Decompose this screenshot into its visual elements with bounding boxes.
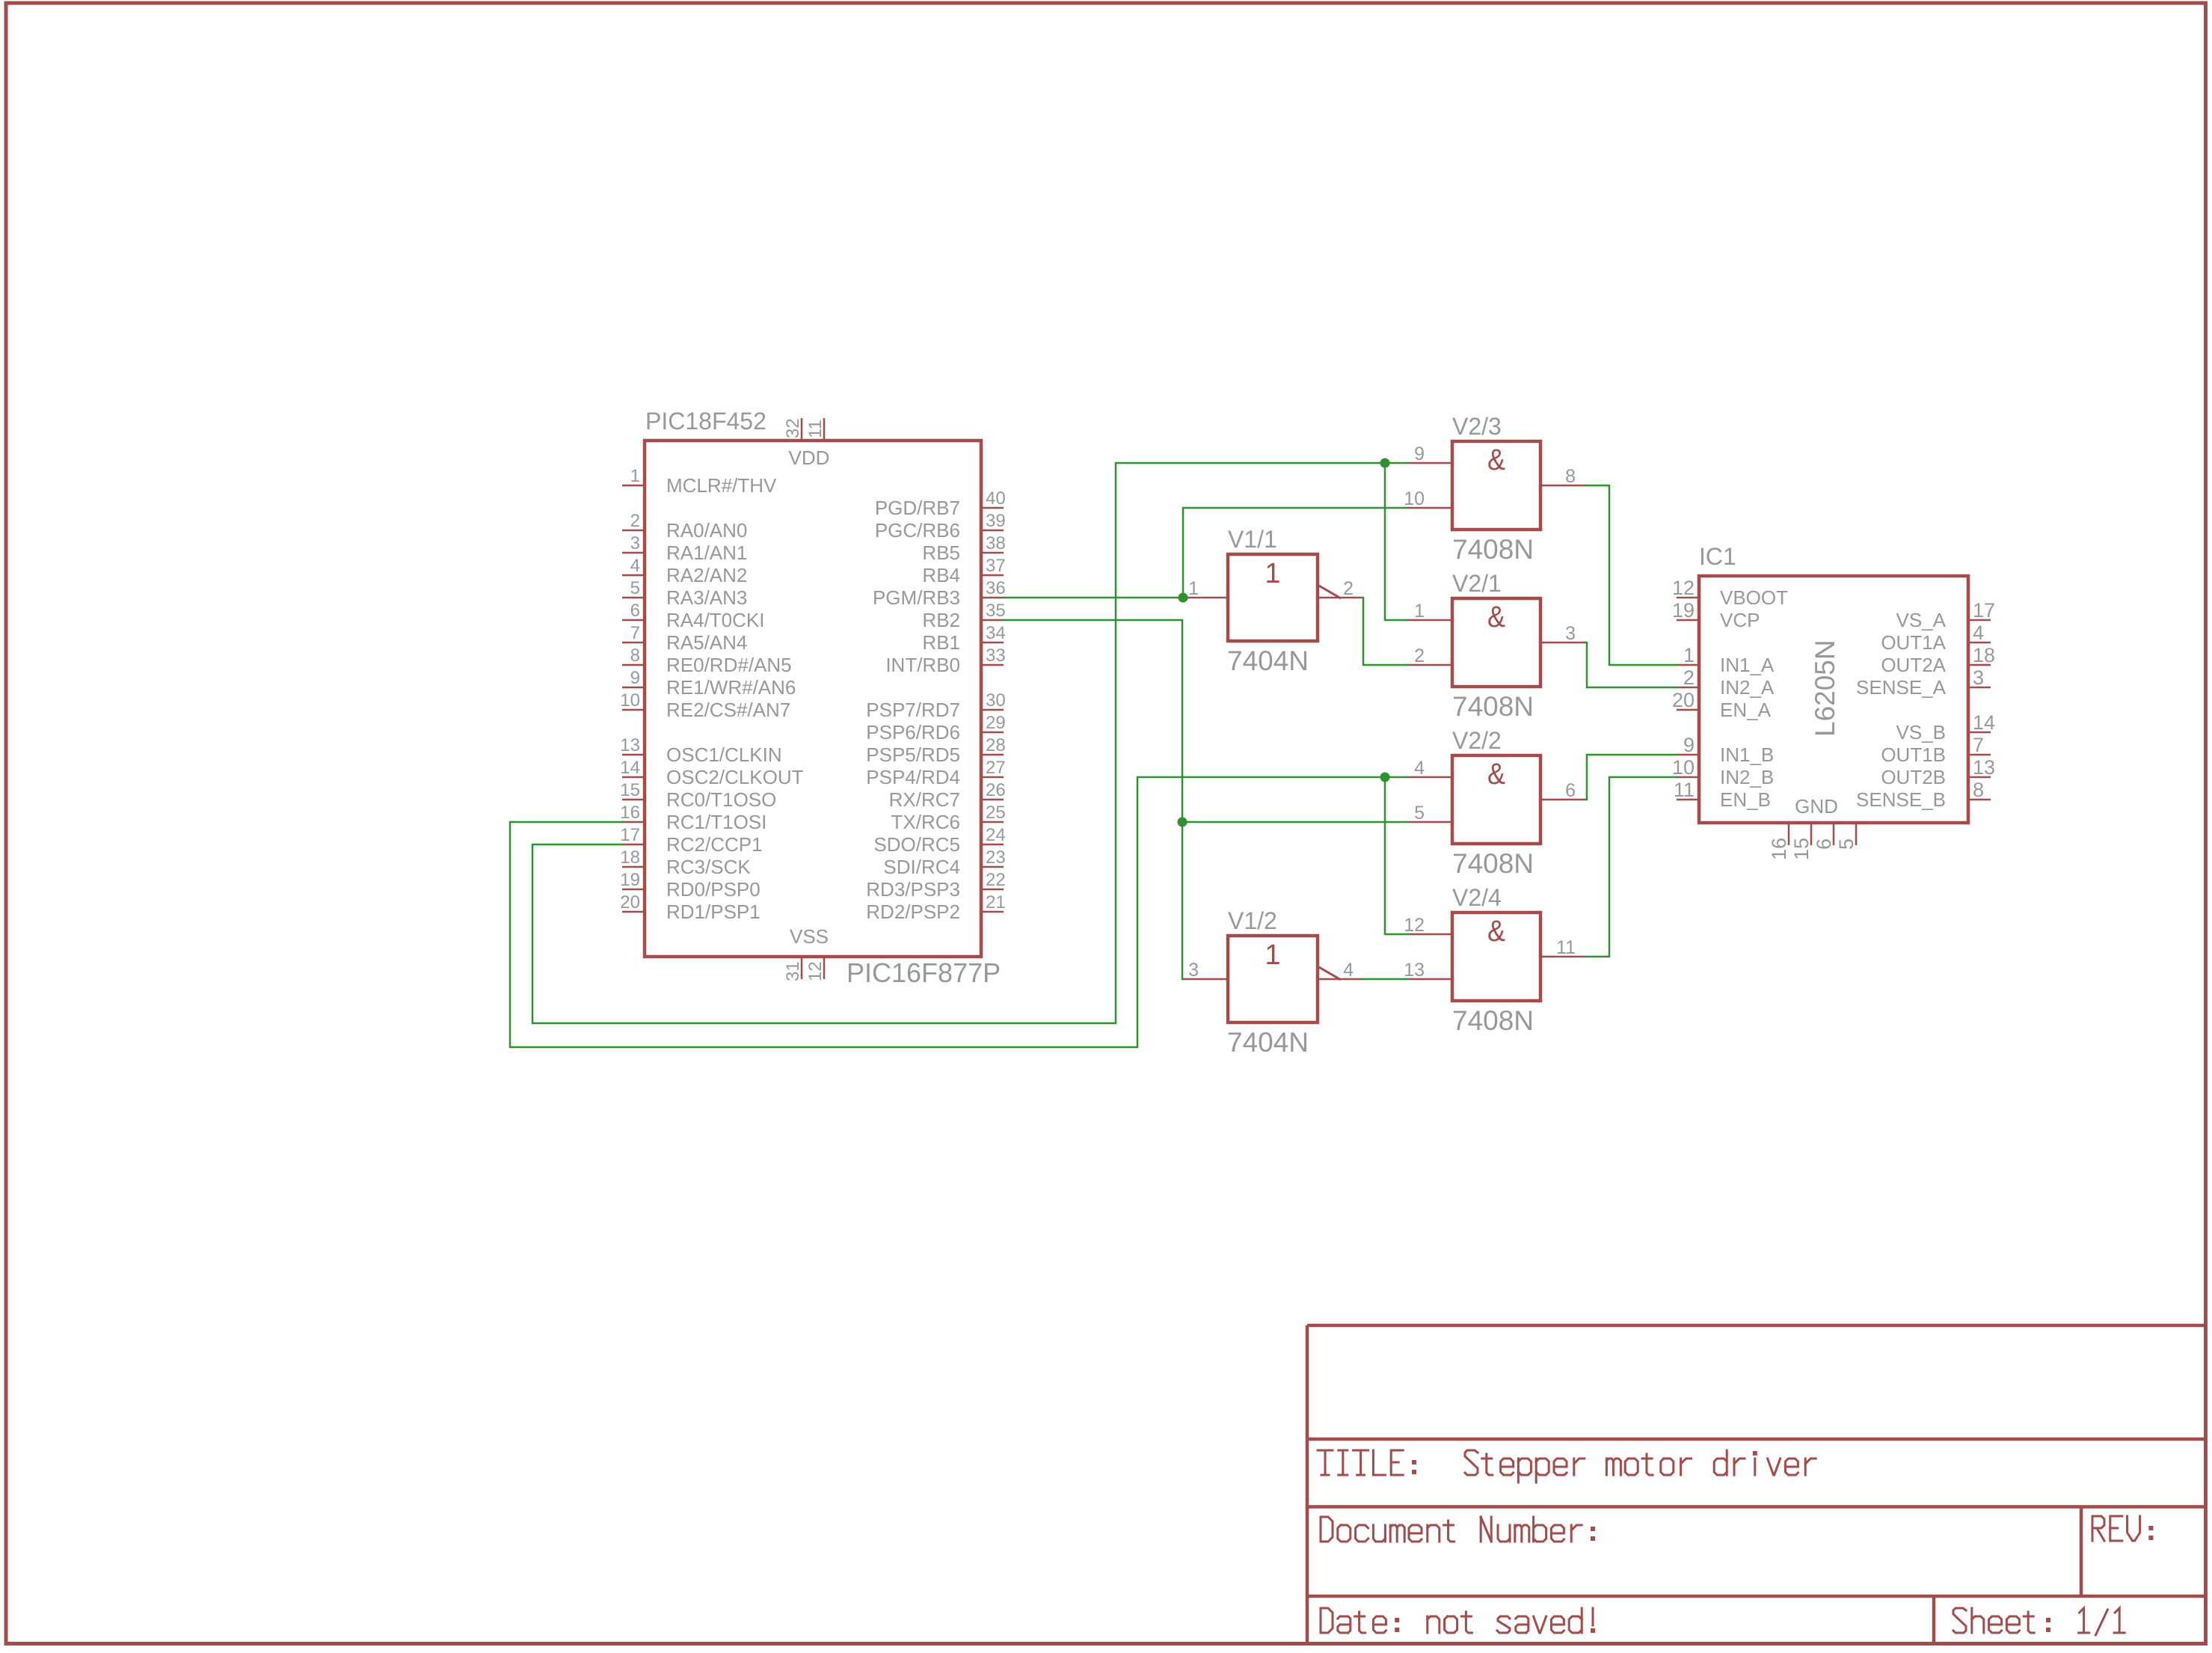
svg-text:18: 18 xyxy=(1973,644,1995,666)
svg-text:1: 1 xyxy=(1188,578,1199,599)
svg-text:22: 22 xyxy=(986,870,1006,890)
svg-text:39: 39 xyxy=(986,511,1006,531)
svg-text:OSC2/CLKOUT: OSC2/CLKOUT xyxy=(666,766,804,788)
svg-text:1: 1 xyxy=(1683,644,1695,666)
svg-text:4: 4 xyxy=(630,556,640,576)
svg-text:MCLR#/THV: MCLR#/THV xyxy=(666,474,777,497)
svg-text:6: 6 xyxy=(1565,780,1576,801)
svg-text:RA2/AN2: RA2/AN2 xyxy=(666,564,747,586)
svg-text:PGM/RB3: PGM/RB3 xyxy=(873,586,960,609)
svg-text:16: 16 xyxy=(1768,838,1790,860)
svg-text:37: 37 xyxy=(986,556,1006,576)
svg-text:8: 8 xyxy=(630,645,640,666)
svg-text:7: 7 xyxy=(1973,734,1984,756)
svg-text:RA1/AN1: RA1/AN1 xyxy=(666,542,747,564)
svg-text:V1/2: V1/2 xyxy=(1228,907,1277,934)
svg-text:VDD: VDD xyxy=(789,447,830,469)
svg-text:VSS: VSS xyxy=(790,925,829,948)
svg-text:19: 19 xyxy=(1672,599,1695,622)
svg-text:3: 3 xyxy=(1565,623,1576,644)
svg-text:&: & xyxy=(1487,444,1505,476)
svg-text:PGC/RB6: PGC/RB6 xyxy=(875,519,960,542)
svg-text:V2/3: V2/3 xyxy=(1452,413,1502,440)
svg-text:8: 8 xyxy=(1565,466,1576,487)
svg-text:21: 21 xyxy=(986,892,1006,913)
svg-text:RX/RC7: RX/RC7 xyxy=(889,788,960,811)
svg-text:2: 2 xyxy=(1343,578,1354,599)
svg-text:RA5/AN4: RA5/AN4 xyxy=(666,631,747,654)
svg-text:2: 2 xyxy=(1414,645,1425,666)
svg-text:L6205N: L6205N xyxy=(1810,640,1840,737)
svg-text:RC0/T1OSO: RC0/T1OSO xyxy=(666,788,776,811)
svg-text:IN1_B: IN1_B xyxy=(1720,743,1774,766)
svg-text:VBOOT: VBOOT xyxy=(1720,586,1788,609)
svg-text:&: & xyxy=(1487,758,1505,791)
svg-text:20: 20 xyxy=(620,892,640,913)
svg-text:11: 11 xyxy=(805,420,826,438)
svg-text:VCP: VCP xyxy=(1720,609,1760,631)
svg-text:V2/1: V2/1 xyxy=(1452,570,1502,597)
svg-text:RD1/PSP1: RD1/PSP1 xyxy=(666,901,761,923)
svg-text:1: 1 xyxy=(1414,601,1425,622)
svg-text:13: 13 xyxy=(1973,756,1995,779)
svg-text:14: 14 xyxy=(620,758,640,778)
svg-text:3: 3 xyxy=(630,533,640,553)
svg-text:38: 38 xyxy=(986,533,1006,553)
svg-text:1: 1 xyxy=(630,466,640,486)
svg-text:OUT1B: OUT1B xyxy=(1881,743,1946,766)
svg-text:RC2/CCP1: RC2/CCP1 xyxy=(666,833,763,856)
svg-text:&: & xyxy=(1487,915,1505,948)
svg-text:36: 36 xyxy=(986,578,1006,598)
svg-text:9: 9 xyxy=(1683,734,1695,756)
svg-text:1: 1 xyxy=(1265,558,1280,589)
svg-text:24: 24 xyxy=(986,825,1006,845)
svg-text:7404N: 7404N xyxy=(1227,645,1309,676)
svg-text:RD3/PSP3: RD3/PSP3 xyxy=(866,878,960,901)
svg-text:EN_B: EN_B xyxy=(1720,788,1771,811)
svg-text:RB5: RB5 xyxy=(922,542,960,564)
svg-text:5: 5 xyxy=(1835,838,1858,850)
svg-text:OSC1/CLKIN: OSC1/CLKIN xyxy=(666,743,782,766)
svg-text:10: 10 xyxy=(1672,756,1695,779)
svg-text:RA0/AN0: RA0/AN0 xyxy=(666,519,747,542)
svg-text:30: 30 xyxy=(986,690,1006,711)
svg-text:RC1/T1OSI: RC1/T1OSI xyxy=(666,811,766,833)
svg-text:4: 4 xyxy=(1414,758,1425,779)
svg-text:PSP6/RD6: PSP6/RD6 xyxy=(866,721,960,743)
svg-text:13: 13 xyxy=(1404,960,1425,981)
svg-text:40: 40 xyxy=(986,488,1006,509)
svg-text:SDO/RC5: SDO/RC5 xyxy=(873,833,960,856)
svg-text:29: 29 xyxy=(986,713,1006,733)
svg-text:SDI/RC4: SDI/RC4 xyxy=(883,856,960,878)
svg-text:7: 7 xyxy=(630,623,640,643)
svg-text:11: 11 xyxy=(1556,937,1576,958)
svg-text:6: 6 xyxy=(630,601,640,621)
svg-text:28: 28 xyxy=(986,735,1006,755)
svg-text:RC3/SCK: RC3/SCK xyxy=(666,856,751,878)
svg-text:V1/1: V1/1 xyxy=(1228,526,1277,553)
svg-text:6: 6 xyxy=(1813,838,1835,850)
svg-text:7404N: 7404N xyxy=(1227,1027,1309,1058)
svg-text:15: 15 xyxy=(620,780,640,800)
svg-text:27: 27 xyxy=(986,758,1006,778)
svg-text:34: 34 xyxy=(986,623,1006,643)
svg-text:25: 25 xyxy=(986,803,1006,823)
svg-text:2: 2 xyxy=(630,511,640,531)
svg-text:8: 8 xyxy=(1973,779,1984,801)
svg-text:TX/RC6: TX/RC6 xyxy=(891,811,960,833)
svg-text:5: 5 xyxy=(630,578,640,598)
svg-text:18: 18 xyxy=(620,847,640,868)
svg-text:INT/RB0: INT/RB0 xyxy=(885,654,960,676)
svg-text:20: 20 xyxy=(1672,689,1695,711)
svg-text:12: 12 xyxy=(1404,915,1425,936)
svg-text:19: 19 xyxy=(620,870,640,890)
svg-text:RB4: RB4 xyxy=(922,564,960,586)
svg-text:11: 11 xyxy=(1674,779,1695,801)
svg-text:RD0/PSP0: RD0/PSP0 xyxy=(666,878,761,901)
svg-text:3: 3 xyxy=(1188,960,1199,981)
svg-text:IC1: IC1 xyxy=(1699,543,1736,570)
svg-text:1: 1 xyxy=(1265,939,1280,971)
svg-text:26: 26 xyxy=(986,780,1006,800)
svg-text:7408N: 7408N xyxy=(1452,691,1534,722)
svg-text:EN_A: EN_A xyxy=(1720,699,1772,721)
svg-text:&: & xyxy=(1487,601,1505,634)
svg-text:RA4/T0CKI: RA4/T0CKI xyxy=(666,609,765,631)
svg-text:16: 16 xyxy=(620,803,640,823)
svg-text:7408N: 7408N xyxy=(1452,848,1534,879)
svg-text:12: 12 xyxy=(1672,577,1695,599)
svg-text:31: 31 xyxy=(783,961,803,981)
svg-text:RE1/WR#/AN6: RE1/WR#/AN6 xyxy=(666,676,796,699)
svg-text:IN2_B: IN2_B xyxy=(1720,766,1774,788)
svg-text:32: 32 xyxy=(783,418,803,438)
svg-text:IN1_A: IN1_A xyxy=(1720,654,1775,676)
svg-text:PSP5/RD5: PSP5/RD5 xyxy=(866,743,960,766)
svg-text:PSP7/RD7: PSP7/RD7 xyxy=(866,699,960,721)
svg-text:15: 15 xyxy=(1790,838,1813,860)
svg-text:10: 10 xyxy=(620,690,640,711)
svg-text:3: 3 xyxy=(1973,666,1984,689)
svg-text:RD2/PSP2: RD2/PSP2 xyxy=(866,901,960,923)
svg-text:VS_A: VS_A xyxy=(1896,609,1947,631)
svg-text:4: 4 xyxy=(1973,622,1984,644)
svg-text:SENSE_B: SENSE_B xyxy=(1856,788,1946,811)
svg-text:RB2: RB2 xyxy=(922,609,960,631)
svg-text:9: 9 xyxy=(1414,444,1425,464)
svg-text:VS_B: VS_B xyxy=(1896,721,1947,743)
svg-text:PIC16F877P: PIC16F877P xyxy=(847,957,1001,988)
svg-text:13: 13 xyxy=(620,735,640,755)
svg-text:PSP4/RD4: PSP4/RD4 xyxy=(866,766,960,788)
svg-text:RB1: RB1 xyxy=(922,631,960,654)
svg-text:OUT2A: OUT2A xyxy=(1881,654,1946,676)
svg-text:RE2/CS#/AN7: RE2/CS#/AN7 xyxy=(666,699,790,721)
svg-text:RA3/AN3: RA3/AN3 xyxy=(666,586,747,609)
svg-text:23: 23 xyxy=(986,847,1006,868)
svg-text:7408N: 7408N xyxy=(1452,1005,1534,1036)
svg-text:SENSE_A: SENSE_A xyxy=(1856,676,1947,699)
svg-text:17: 17 xyxy=(1973,599,1995,622)
svg-text:IN2_A: IN2_A xyxy=(1720,676,1775,699)
svg-text:5: 5 xyxy=(1414,803,1425,824)
svg-text:9: 9 xyxy=(630,668,640,688)
svg-text:PIC18F452: PIC18F452 xyxy=(645,408,766,435)
svg-text:14: 14 xyxy=(1973,711,1995,734)
svg-text:OUT1A: OUT1A xyxy=(1881,631,1946,654)
svg-text:7408N: 7408N xyxy=(1452,534,1534,565)
svg-text:2: 2 xyxy=(1683,666,1695,689)
svg-text:RE0/RD#/AN5: RE0/RD#/AN5 xyxy=(666,654,792,676)
svg-text:35: 35 xyxy=(986,601,1006,621)
svg-text:GND: GND xyxy=(1795,795,1838,818)
svg-text:V2/2: V2/2 xyxy=(1452,727,1502,754)
svg-text:17: 17 xyxy=(620,825,640,845)
svg-text:10: 10 xyxy=(1404,488,1425,509)
svg-text:4: 4 xyxy=(1343,960,1354,981)
svg-text:12: 12 xyxy=(805,961,826,981)
svg-text:OUT2B: OUT2B xyxy=(1881,766,1946,788)
svg-text:33: 33 xyxy=(986,645,1006,666)
svg-text:PGD/RB7: PGD/RB7 xyxy=(875,497,960,519)
svg-text:V2/4: V2/4 xyxy=(1452,884,1502,911)
